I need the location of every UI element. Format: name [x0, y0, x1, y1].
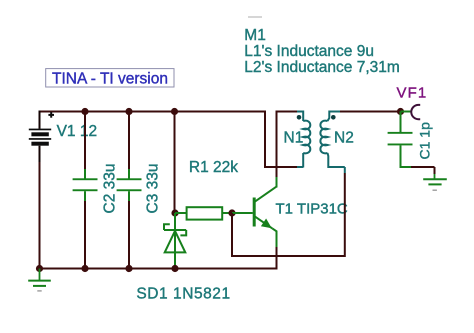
label R1 22k	[189, 159, 238, 176]
svg-text:VF1: VF1	[397, 85, 428, 102]
junction node A	[171, 209, 178, 216]
junction top C2	[81, 108, 88, 115]
junction top R1 branch	[171, 108, 178, 115]
svg-text:TINA - TI version: TINA - TI version	[52, 71, 168, 88]
svg-text:L2's Inductance 7,31m: L2's Inductance 7,31m	[244, 59, 399, 76]
label N1	[284, 129, 304, 146]
label V1 12	[57, 123, 98, 140]
label L1 inductance	[244, 43, 374, 60]
label VF1	[397, 85, 428, 102]
junction top C3	[125, 108, 132, 115]
wire battery to bottom rail	[39, 162, 41, 269]
wire C1 to ground	[400, 167, 435, 174]
label M1	[244, 27, 266, 44]
wire C2 bottom	[84, 191, 86, 268]
ground left	[28, 269, 51, 291]
label SD1 1N5821	[136, 285, 230, 302]
junction base node	[228, 209, 235, 216]
label C3 33u	[145, 164, 162, 214]
capacitor C1	[388, 112, 413, 168]
probe VF1	[401, 105, 421, 119]
wire C3 bottom	[128, 191, 130, 268]
svg-text:T1 TIP31C: T1 TIP31C	[276, 201, 348, 218]
wire rail to N1 bottom	[265, 111, 303, 168]
svg-text:M1: M1	[244, 27, 266, 44]
svg-text:L1's Inductance 9u: L1's Inductance 9u	[244, 43, 374, 60]
artifact gray dash	[248, 16, 262, 18]
label C1 1p	[417, 122, 433, 160]
phase dot N2	[331, 115, 336, 120]
wire emitter to bottom rail	[276, 247, 278, 269]
svg-text:R1 22k: R1 22k	[189, 159, 238, 176]
wire top rail	[39, 111, 266, 113]
label N2	[334, 129, 354, 146]
wire N2 to VF1 output	[329, 111, 400, 113]
wire C3 top	[128, 112, 130, 179]
resistor R1	[175, 207, 232, 219]
wire C2 top	[84, 112, 86, 179]
junction bottom C3	[125, 265, 132, 272]
wire N2 feedback to base	[232, 173, 345, 256]
svg-text:V1 12: V1 12	[57, 123, 98, 140]
capacitor C2	[73, 178, 98, 191]
wire N1 top to collector	[276, 111, 303, 113]
label T1 TIP31C	[276, 201, 348, 218]
battery V1	[29, 111, 54, 163]
diode SD1 1N5821	[164, 213, 186, 269]
junction bottom C2	[81, 265, 88, 272]
svg-text:N1: N1	[284, 129, 304, 146]
svg-text:C2 33u: C2 33u	[102, 164, 119, 214]
svg-text:SD1 1N5821: SD1 1N5821	[136, 285, 230, 302]
wire collector	[276, 112, 278, 188]
transformer M1 winding N1	[303, 111, 310, 168]
svg-text:C3 33u: C3 33u	[145, 164, 162, 214]
ground right	[423, 174, 447, 190]
phase dot N1	[297, 115, 302, 120]
transformer M1 winding N2	[320, 111, 344, 174]
transistor T1	[232, 187, 277, 247]
junction bottom battery/ground	[36, 265, 43, 272]
junction diode bottom	[171, 265, 178, 272]
svg-text:N2: N2	[334, 129, 354, 146]
wire R1 branch drop	[174, 112, 176, 214]
junction output node	[397, 108, 404, 115]
TINA - TI version box	[46, 69, 174, 88]
svg-text:C1 1p: C1 1p	[417, 122, 433, 160]
capacitor C3	[117, 178, 142, 191]
wire bottom rail	[40, 268, 278, 270]
label L2 inductance	[244, 59, 399, 76]
label C2 33u	[102, 164, 119, 214]
